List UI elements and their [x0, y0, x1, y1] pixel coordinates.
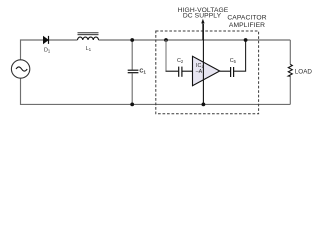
diode D1	[43, 36, 48, 44]
wire bottom rail	[21, 78, 291, 104]
node C2 tap	[164, 38, 168, 42]
svg-text:LOAD: LOAD	[295, 69, 313, 76]
node C1 top	[130, 38, 134, 42]
ac source V1	[11, 60, 29, 78]
wire amp supply riser	[202, 24, 204, 104]
svg-text:D1: D1	[44, 48, 51, 54]
wire C2 to amp	[182, 70, 192, 72]
svg-text:CAPACITOR: CAPACITOR	[227, 15, 266, 22]
capacitor C2	[179, 67, 182, 77]
wire C5 output riser	[234, 40, 246, 71]
svg-text:DC SUPPLY: DC SUPPLY	[183, 13, 222, 20]
op-amp IC1	[193, 56, 220, 85]
wire load right stem	[289, 40, 291, 64]
capacitor C1	[128, 40, 139, 104]
inductor L1	[78, 33, 99, 40]
dashed enclosure	[156, 31, 259, 114]
node C5 top	[244, 38, 248, 42]
svg-text:C5: C5	[230, 58, 237, 64]
capacitor C5	[231, 67, 234, 77]
svg-text:AMPLIFIER: AMPLIFIER	[229, 22, 265, 29]
resistor load	[288, 64, 292, 76]
svg-text:L1: L1	[86, 46, 92, 52]
wire amp output	[220, 70, 231, 72]
svg-text:C1: C1	[139, 68, 146, 74]
wire top rail	[21, 40, 78, 60]
arrow HV supply pointer	[201, 19, 204, 40]
wire C2 input	[166, 70, 179, 72]
svg-text:–A: –A	[196, 69, 203, 75]
node C1 bottom	[130, 103, 134, 107]
wire C2 riser	[165, 40, 167, 71]
node amp ground	[202, 103, 206, 107]
svg-text:C2: C2	[177, 58, 184, 64]
